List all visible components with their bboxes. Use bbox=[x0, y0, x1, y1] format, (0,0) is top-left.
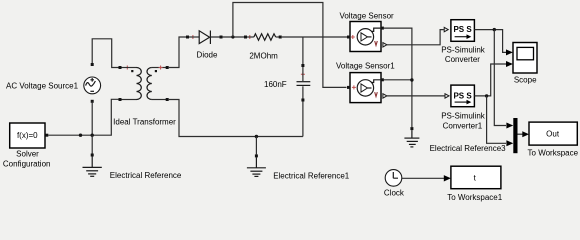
capacitor 160nF bbox=[297, 64, 311, 102]
transformer secondary bottom lead bbox=[152, 99, 166, 101]
wire: capacitor branch top bbox=[302, 37, 304, 64]
mux input arrowheads bbox=[506, 123, 513, 129]
wire: AC source bottom to left bus bbox=[91, 102, 93, 136]
svg-text:Electrical Reference1: Electrical Reference1 bbox=[273, 171, 350, 180]
node: transformer primary top port bbox=[119, 66, 122, 69]
svg-text:Ideal Transformer: Ideal Transformer bbox=[113, 117, 176, 126]
t To Workspace1 bbox=[451, 166, 501, 189]
transformer primary winding bbox=[137, 68, 142, 100]
wire: capacitor bottom to right bus bbox=[302, 102, 304, 137]
wire: converter1 out bbox=[474, 64, 506, 96]
Mux bbox=[513, 118, 517, 153]
AC Voltage Source1 bbox=[84, 63, 101, 103]
svg-text:f(x)=0: f(x)=0 bbox=[17, 131, 38, 140]
svg-text:Voltage Sensor1: Voltage Sensor1 bbox=[336, 62, 395, 71]
wire: sensor V out to converter bbox=[387, 30, 444, 45]
junction dot solver wire bbox=[79, 134, 82, 137]
junction dot AC column bbox=[91, 134, 94, 137]
svg-text:Clock: Clock bbox=[384, 189, 405, 198]
Solver Configuration f(x)=0 bbox=[10, 123, 49, 148]
wire: ground branch bbox=[91, 135, 93, 153]
transformer secondary winding bbox=[147, 68, 152, 100]
node: diode output port bbox=[220, 36, 223, 39]
diode + mark bbox=[191, 35, 195, 39]
transformer secondary phase dot bbox=[155, 70, 157, 72]
svg-text:PS-Simulink: PS-Simulink bbox=[441, 45, 486, 54]
wire: clock to To Workspace1 bbox=[402, 177, 445, 179]
wire: converter out down to mux in1 bbox=[494, 30, 506, 126]
svg-text:Electrical Reference: Electrical Reference bbox=[110, 171, 182, 180]
wire: transformer secondary top to diode bbox=[169, 37, 186, 68]
PS-Simulink Converter1 bbox=[445, 85, 474, 107]
svg-text:To Workspace: To Workspace bbox=[528, 148, 579, 157]
transformer secondary + mark bbox=[159, 66, 163, 70]
svg-text:Voltage Sensor: Voltage Sensor bbox=[339, 11, 394, 20]
wire: diode cathode to resistor bbox=[210, 36, 244, 38]
junction dot ground1 branch bbox=[255, 135, 258, 138]
wire: converter out to scope in1 bbox=[474, 30, 506, 53]
transformer primary phase dot bbox=[131, 70, 133, 72]
svg-text:To Workspace1: To Workspace1 bbox=[447, 193, 503, 202]
wire: sensor1 conserving port bbox=[384, 79, 412, 81]
wire: sensor conserving ports to ground bbox=[384, 28, 412, 127]
wire: left bus solver to transformer bottom-left bbox=[48, 99, 119, 135]
Voltage Sensor bbox=[347, 22, 387, 52]
wire: ground1 branch bbox=[255, 137, 257, 155]
wire: converter1 out down to mux in2 bbox=[487, 96, 506, 143]
Out To Workspace bbox=[529, 122, 577, 145]
Voltage Sensor1 bbox=[347, 73, 387, 103]
svg-text:PS S: PS S bbox=[453, 91, 472, 100]
junction dot converter1 out bbox=[485, 94, 488, 97]
wire: resistor to Voltage Sensor input bbox=[282, 36, 348, 38]
svg-text:Solver: Solver bbox=[16, 150, 39, 159]
junction dot sensors ground bbox=[410, 78, 413, 81]
svg-text:Electrical Reference3: Electrical Reference3 bbox=[430, 144, 507, 153]
transformer port squares bbox=[119, 98, 122, 101]
svg-text:Diode: Diode bbox=[197, 51, 218, 60]
PS-Simulink Converter bbox=[444, 20, 474, 42]
svg-text:Configuration: Configuration bbox=[3, 160, 51, 169]
resistor 2MOhm bbox=[244, 34, 282, 40]
svg-text:160nF: 160nF bbox=[264, 80, 287, 89]
node: transformer primary + mark bbox=[125, 66, 129, 70]
node: diode anode port bbox=[186, 36, 189, 39]
transformer primary bottom lead bbox=[122, 99, 137, 101]
svg-text:Converter1: Converter1 bbox=[443, 121, 483, 130]
Scope bbox=[513, 43, 537, 74]
wire: mux to Out bbox=[518, 133, 524, 135]
svg-text:PS-Simulink: PS-Simulink bbox=[441, 112, 486, 121]
wire: transformer secondary bottom to right bus bbox=[169, 100, 303, 137]
svg-text:AC Voltage Source1: AC Voltage Source1 bbox=[6, 81, 79, 90]
transformer primary top lead bbox=[122, 67, 137, 69]
diode D1 bbox=[199, 31, 210, 45]
svg-text:Converter: Converter bbox=[445, 55, 480, 64]
scope input arrowheads bbox=[506, 49, 513, 55]
Ideal Transformer bbox=[119, 66, 169, 102]
ground Electrical Reference1 bbox=[247, 154, 266, 176]
wire: bypass to Voltage Sensor1 input bbox=[233, 3, 347, 88]
wire: port to diode bbox=[189, 36, 199, 38]
svg-text:Out: Out bbox=[546, 130, 560, 139]
junction dot diode bypass bbox=[231, 35, 234, 38]
transformer secondary top lead bbox=[152, 67, 166, 69]
wire: sensor1 V out to converter1 bbox=[387, 95, 445, 97]
junction dot converter out bbox=[493, 28, 496, 31]
wire: AC source top to transformer primary top bbox=[92, 39, 119, 68]
ground Electrical Reference3 bbox=[404, 127, 419, 147]
svg-text:PS S: PS S bbox=[453, 25, 472, 34]
svg-text:2MOhm: 2MOhm bbox=[249, 52, 278, 61]
ground Electrical Reference bbox=[83, 154, 102, 177]
Clock bbox=[385, 170, 402, 187]
svg-text:Scope: Scope bbox=[514, 75, 537, 84]
